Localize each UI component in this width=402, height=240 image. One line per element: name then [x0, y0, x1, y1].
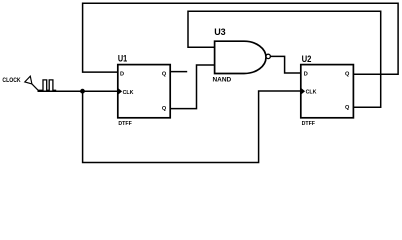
wire: NAND output -> U2.D: [270, 56, 300, 73]
flip-flop U1: CLK arrowhead: [118, 88, 122, 94]
flip-flop U2: CLK arrowhead: [301, 88, 305, 94]
wire: U1.Qbar -> NAND input 2: [170, 65, 214, 109]
svg-text:U1: U1: [118, 53, 128, 64]
svg-text:DTFF: DTFF: [302, 121, 315, 127]
flip-flop U1: body: [118, 65, 170, 118]
svg-text:D: D: [304, 72, 308, 78]
clock source: lead from arrowhead to wire: [32, 84, 39, 91]
clock source: square-wave glyph on wire: [38, 80, 56, 90]
clock source: open arrowhead symbol: [25, 76, 32, 84]
nand gate U3: inversion bubble: [266, 54, 270, 58]
svg-text:Q: Q: [345, 105, 350, 111]
wire: clock branch down/bottom/up to U2.CLK: [83, 91, 301, 163]
flip-flop U2: body: [301, 65, 354, 118]
nand gate U3: body: [215, 41, 266, 73]
svg-text:CLOCK: CLOCK: [2, 77, 21, 84]
svg-text:U2: U2: [302, 54, 312, 65]
wire: outer feedback loop U2.Q -> U1.D: [83, 3, 399, 74]
wire: U1.Q output stub: [170, 71, 187, 73]
svg-text:Q: Q: [162, 72, 167, 78]
svg-text:CLK: CLK: [123, 90, 135, 96]
svg-text:Q: Q: [345, 72, 350, 78]
wire: clock line to U1.CLK: [38, 90, 118, 92]
wire: inner feedback loop U2.Qbar -> NAND input 1: [188, 11, 381, 107]
svg-text:NAND: NAND: [213, 77, 232, 84]
svg-text:Q: Q: [162, 106, 167, 112]
svg-text:CLK: CLK: [306, 90, 318, 96]
svg-text:U3: U3: [214, 27, 226, 38]
svg-text:D: D: [120, 72, 124, 78]
node: clock junction dot: [80, 89, 85, 94]
svg-text:DTFF: DTFF: [118, 121, 131, 127]
